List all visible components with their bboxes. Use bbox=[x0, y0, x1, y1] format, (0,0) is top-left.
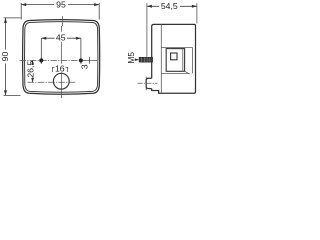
svg-text:90: 90 bbox=[0, 52, 10, 62]
dimension 54,5 line bbox=[147, 5, 197, 7]
svg-text:95: 95 bbox=[56, 0, 66, 10]
side view body outline bbox=[152, 24, 196, 93]
right screw hole extension line with down arrow bbox=[80, 38, 82, 63]
front view inner lens outline bbox=[25, 22, 98, 93]
left screw hole bbox=[39, 58, 43, 62]
side view inner vertical wall bbox=[160, 24, 162, 93]
M5 stud with thread hatch bbox=[139, 57, 152, 62]
inner square bulb holder bbox=[171, 53, 177, 60]
dimension 3 extension stub bbox=[88, 57, 90, 64]
side view lower shelf bbox=[161, 72, 189, 74]
dome front face tick bbox=[145, 77, 147, 91]
dimension 90 extension lines bbox=[4, 18, 21, 96]
svg-text:3: 3 bbox=[79, 64, 89, 69]
horizontal centerline through bottom circle bbox=[28, 81, 76, 83]
dimension 26,5 arrows bbox=[31, 60, 34, 82]
left screw hole extension line with down arrow bbox=[40, 38, 42, 63]
socket diagonal bbox=[185, 71, 190, 74]
dimension 95 line bbox=[21, 4, 99, 6]
bottom circle bbox=[53, 73, 69, 89]
dimension 54,5 arrows bbox=[147, 5, 197, 8]
svg-text:M5: M5 bbox=[127, 52, 136, 64]
svg-text:45: 45 bbox=[56, 33, 66, 43]
horizontal centerline through screw holes bbox=[20, 59, 88, 61]
svg-text:54,5: 54,5 bbox=[161, 1, 178, 11]
dimension 95 extension lines bbox=[21, 3, 99, 20]
dimension 45 arrows bbox=[41, 37, 81, 40]
front view outer lens outline bbox=[23, 20, 100, 95]
socket housing inner edge bbox=[182, 49, 184, 71]
dimension 54,5 extension lines bbox=[147, 3, 197, 57]
right screw hole bbox=[79, 58, 83, 62]
side view inner horizontal shelf bbox=[161, 47, 192, 49]
M5 leader arrow bbox=[135, 59, 137, 61]
bottom dome protrusion bbox=[146, 78, 152, 88]
dimension 95 arrows bbox=[21, 3, 99, 6]
dimension 90 arrows bbox=[4, 18, 7, 96]
dimension 45 line bbox=[41, 37, 81, 39]
dome centerline bbox=[138, 82, 158, 84]
vertical centerline bbox=[61, 16, 62, 98]
side view lens bottom step bbox=[158, 91, 160, 94]
dimension 26,5 line bbox=[32, 60, 34, 82]
dimension 90 line bbox=[5, 18, 7, 96]
svg-text:16: 16 bbox=[55, 63, 65, 73]
side view inner rear wall bbox=[192, 48, 194, 74]
socket housing square bbox=[166, 49, 184, 72]
svg-text:26,5: 26,5 bbox=[25, 61, 35, 78]
